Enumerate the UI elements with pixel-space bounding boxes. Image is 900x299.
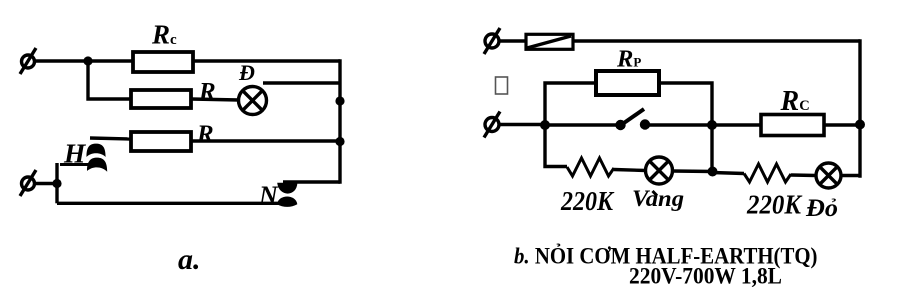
wire: H lead (underline) xyxy=(60,163,104,166)
wire: Rc to right rail xyxy=(193,59,340,62)
label Vang xyxy=(632,186,684,212)
svg-text:RP: RP xyxy=(616,46,641,73)
wire: switch to node C xyxy=(648,123,712,126)
svg-text:Rc: Rc xyxy=(151,20,177,50)
svg-text:220K: 220K xyxy=(746,190,803,220)
resistor 220K (right, zigzag) xyxy=(744,164,791,182)
bottom node junction dot xyxy=(52,179,61,188)
wire: contact N to right rail xyxy=(283,180,340,183)
node D (junction dot) xyxy=(708,167,718,177)
fuse F1 xyxy=(526,34,573,49)
node A (junction dot) xyxy=(83,56,92,65)
wire: terminal to fuse xyxy=(499,39,526,42)
right rail of circuit a xyxy=(338,59,341,183)
wire: row 3 resistor to right rail xyxy=(191,139,340,142)
contact H (thermal contact pads) xyxy=(86,144,107,172)
lamp Vang xyxy=(646,157,673,184)
resistor R (row 2) xyxy=(131,90,191,108)
junction dot on right rail xyxy=(855,120,865,130)
wire: node B to switch xyxy=(545,123,617,126)
junction dot on rail (row 2) xyxy=(335,96,344,105)
resistor Rc2 xyxy=(761,115,824,136)
resistor Rp xyxy=(596,71,659,95)
wire: node C down to node D xyxy=(710,125,713,172)
wire: node A down to row 2 xyxy=(88,61,131,99)
right rail of circuit b xyxy=(858,39,861,177)
svg-text:RC: RC xyxy=(780,86,810,117)
terminal phase L (circuit a, top-left) xyxy=(20,48,36,74)
wire: node A to resistor Rc xyxy=(88,59,133,62)
wire: zigzag 2 to lamp Do xyxy=(791,173,816,177)
svg-text:Đ: Đ xyxy=(238,60,255,85)
wire: bottom rail to contact N xyxy=(57,202,284,205)
wire: Rp to node C xyxy=(659,83,712,125)
switch S1 xyxy=(615,109,650,130)
resistor 220K (left, zigzag) xyxy=(567,158,614,176)
svg-text:N: N xyxy=(258,181,279,210)
wire: node C to resistor Rc2 xyxy=(712,123,761,126)
wire: Rc2 to right rail xyxy=(824,123,860,126)
junction dot on rail (row 3) xyxy=(335,137,344,146)
wire: terminal to bottom node xyxy=(35,182,58,185)
terminal phase N (circuit a, bottom-left) xyxy=(20,170,36,196)
wire: contact H to resistor R (row 3) xyxy=(90,138,131,139)
wire: node B up and over to resistor Rp xyxy=(545,83,596,125)
wire: terminal L to node A xyxy=(35,59,89,62)
wire: lamp D to right rail xyxy=(263,81,340,84)
wire: lamp Do to right rail xyxy=(841,174,860,177)
lamp Do xyxy=(816,163,841,188)
wire: terminal to node B xyxy=(499,123,545,126)
resistor R (row 3) xyxy=(131,132,191,151)
small square marker xyxy=(496,77,508,94)
wire: vertical through bottom node xyxy=(55,163,58,203)
wire: zigzag to lamp Vang xyxy=(614,170,646,171)
svg-text:Đỏ: Đỏ xyxy=(805,195,838,222)
svg-text:R: R xyxy=(196,121,214,148)
svg-text:Vang: Vang xyxy=(632,186,684,212)
wire: R to lamp D xyxy=(191,99,239,100)
svg-text:a.: a. xyxy=(178,243,201,276)
wire: node D to zigzag 2 xyxy=(712,173,744,174)
svg-text:R: R xyxy=(198,79,216,106)
lamp D xyxy=(239,87,267,115)
contact N (thermal contact pads) xyxy=(277,183,297,207)
node C (junction dot) xyxy=(707,120,717,130)
svg-text:220K: 220K xyxy=(560,186,615,216)
wire: lamp Vang to node D xyxy=(673,169,714,173)
wire: fuse to right rail (top) xyxy=(573,39,860,42)
terminal phase L (circuit b, top-left) xyxy=(484,28,500,54)
terminal phase N (circuit b, middle-left) xyxy=(484,112,500,138)
node B (junction dot) xyxy=(540,120,550,130)
resistor Rc xyxy=(133,52,193,72)
svg-text:220V-700W 1,8L: 220V-700W 1,8L xyxy=(629,264,782,289)
wire: node B down to row 3 xyxy=(545,125,567,167)
